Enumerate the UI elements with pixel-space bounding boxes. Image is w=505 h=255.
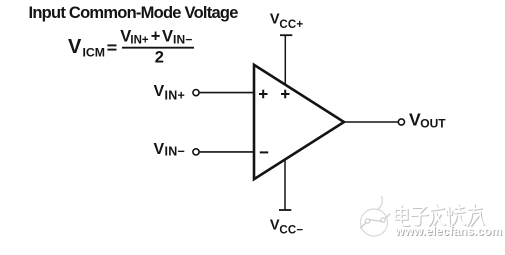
电 [396,206,410,226]
op-amp U1 triangle [254,65,344,179]
svg-text:V: V [162,27,173,45]
wire VCC- from op-amp bottom edge [284,160,286,210]
watermark logo elecfans [361,197,391,237]
svg-text:+: + [151,28,161,46]
子 [412,208,428,226]
svg-text:OUT: OUT [420,117,446,131]
wire VCC+ to op-amp top edge [284,35,286,85]
label VCC+ [270,11,304,31]
友 [468,205,484,226]
svg-text:IN+: IN+ [130,34,149,46]
wire VIN- to op-amp [199,151,254,153]
watermark chinese text dianzi fashaoyou [396,205,484,226]
svg-text:CC−: CC− [279,224,303,236]
wire VIN+ to op-amp [199,92,254,94]
VCC- supply T terminal [279,209,291,211]
op-amp minus input mark [260,151,268,153]
svg-text:V: V [154,83,165,100]
label VIN- [154,141,186,158]
terminal circle VIN+ [193,90,199,96]
svg-text:www.elecfans.com: www.elecfans.com [394,224,502,238]
svg-text:CC+: CC+ [279,19,303,31]
svg-text:ICM: ICM [83,45,106,59]
watermark url www.elecfans.com [394,224,503,239]
terminal circle VOUT [398,119,404,125]
watermark chinese text highlight [395,205,483,226]
svg-text:V: V [154,141,165,158]
terminal circle VIN- [193,149,199,155]
svg-text:2: 2 [155,48,164,66]
wire op-amp output [342,121,398,123]
svg-text:V: V [270,217,280,233]
VCC+ supply T terminal [280,34,292,36]
label VIN+ [154,83,186,102]
op-amp positive supply plus mark [281,90,290,99]
formula V_ICM = (V_IN+ + V_IN-)/2 [68,27,194,66]
op-amp plus input mark [259,90,268,99]
发 [430,205,445,226]
svg-text:IN+: IN+ [165,89,186,103]
svg-text:IN−: IN− [173,32,193,46]
烧 [447,205,466,226]
svg-text:V: V [409,109,421,129]
svg-text:V: V [68,36,82,58]
title: Input Common-Mode Voltage [29,4,239,22]
label VOUT [409,109,446,130]
svg-text:Input Common-Mode Voltage: Input Common-Mode Voltage [29,4,239,22]
svg-text:V: V [270,11,280,27]
svg-text:IN−: IN− [165,144,186,158]
label VCC- [270,217,304,236]
